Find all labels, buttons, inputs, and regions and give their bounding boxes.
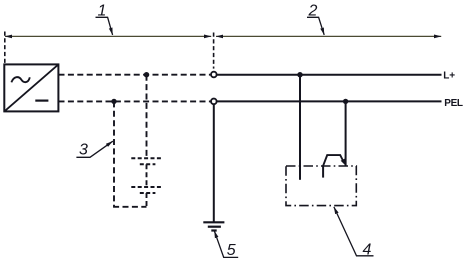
wire dashed bottom horizontal — [113, 206, 146, 208]
junction on dashed PEL — [111, 99, 116, 104]
label 2 — [307, 3, 324, 35]
svg-text:5: 5 — [227, 242, 236, 259]
svg-text:PEL: PEL — [444, 98, 463, 109]
capacitor C2 (dashed, element 3) — [131, 187, 162, 193]
wire dashed vertical from L+ to capacitors — [146, 75, 148, 157]
label 5 — [214, 231, 238, 259]
junction on L+ solid — [297, 72, 302, 77]
capacitor C1 (dashed, element 3) — [131, 158, 162, 164]
terminal node PEL (open circle) — [211, 99, 217, 105]
junction on dashed L+ — [144, 72, 149, 77]
ground (earth symbol, element 5) — [203, 222, 224, 230]
extension line left (x=4.8) — [4, 32, 6, 64]
converter U1 (AC/DC power supply) — [4, 64, 58, 111]
wire L+ solid — [217, 74, 442, 76]
wire dashed L+ (converter to terminal) — [59, 74, 211, 76]
wire from PEL down to enclosure — [345, 101, 347, 166]
dimension line 2 — [216, 35, 441, 37]
wire dashed PEL (converter to terminal) — [59, 100, 211, 102]
svg-text:3: 3 — [79, 142, 88, 159]
hook connector with arrow (plug link) — [323, 155, 343, 166]
wire from L+ down into enclosure — [299, 75, 301, 180]
label 4 — [334, 207, 374, 259]
terminal node L+ (open circle) — [211, 72, 217, 78]
wire dashed between capacitors — [146, 164, 148, 186]
label 3 — [76, 141, 112, 158]
dimension line 1 — [5, 35, 211, 37]
wire dashed below capacitors — [146, 193, 148, 207]
svg-text:L+: L+ — [443, 71, 455, 82]
stub wire inside enclosure — [322, 166, 324, 178]
enclosure box 4 (dash-dot) — [286, 166, 356, 206]
wire PEL solid — [217, 100, 442, 102]
label 1 — [96, 3, 113, 35]
wire dashed vertical from PEL down — [113, 101, 115, 206]
junction on PEL solid — [343, 99, 348, 104]
extension line middle (x=213.6) — [213, 33, 215, 69]
wire from PEL terminal down to earth — [213, 105, 215, 222]
